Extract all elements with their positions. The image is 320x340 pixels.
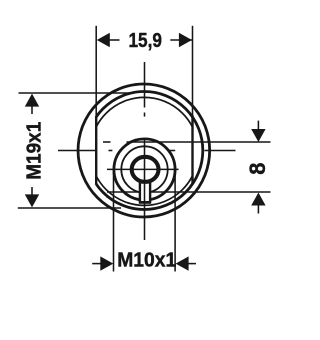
svg-text:8: 8 bbox=[245, 162, 270, 174]
M19 thread circle, clipped by left flat bbox=[86, 92, 203, 210]
dimension tail M10x1 left bbox=[92, 263, 101, 265]
arrow 8 top bbox=[251, 129, 265, 142]
extension line right of M10x1 bbox=[174, 171, 176, 272]
extension line left of 15,9 bbox=[95, 26, 97, 117]
extension line left of M10x1 bbox=[113, 172, 115, 272]
vertical centerline bbox=[144, 62, 146, 108]
tab right edge bbox=[149, 180, 151, 202]
dimension tail 8 bottom bbox=[257, 205, 259, 214]
arrow 8 bottom bbox=[251, 193, 265, 206]
svg-text:M19x1: M19x1 bbox=[23, 122, 46, 180]
M10 thread root circle bbox=[121, 146, 167, 192]
extension line bottom of M19x1 bbox=[18, 207, 121, 209]
svg-text:M10x1: M10x1 bbox=[117, 250, 176, 272]
left flat bbox=[95, 117, 97, 185]
arrow 15,9 left bbox=[97, 33, 110, 47]
arrow M10x1 right bbox=[176, 256, 189, 270]
dimension line M19x1 bottom segment bbox=[31, 187, 33, 196]
dimension tail M10x1 right bbox=[188, 263, 196, 265]
arrow M10x1 left bbox=[100, 256, 113, 270]
dimension line M19x1 top segment bbox=[31, 104, 33, 114]
dimension line 15,9 left segment bbox=[109, 39, 120, 41]
tab bottom edge bbox=[139, 201, 151, 204]
small bore circle bbox=[132, 157, 159, 182]
extension line right of 15,9 bbox=[192, 26, 194, 116]
horizontal centerline (M10 boss) bbox=[107, 168, 179, 170]
extension line top of 8 bbox=[103, 141, 111, 143]
right flat bbox=[191, 115, 193, 184]
tab (slot key) white fill bbox=[140, 177, 150, 202]
tab left edge bbox=[139, 180, 141, 202]
arrow M19x1 top bbox=[25, 94, 39, 107]
M10 boss circle bbox=[114, 139, 175, 200]
dimension line 15,9 right segment bbox=[170, 39, 192, 41]
dimension tail 8 top bbox=[257, 121, 259, 130]
extension line bottom of 8 bbox=[107, 191, 139, 193]
extension line top of M19x1 bbox=[19, 92, 135, 94]
arrow 15,9 right bbox=[179, 33, 192, 47]
svg-text:15,9: 15,9 bbox=[128, 29, 162, 52]
arrow M19x1 bottom bbox=[25, 194, 39, 207]
M19 thread root circle, clipped by both flats bbox=[90, 97, 198, 205]
horizontal centerline (main) bbox=[58, 150, 96, 152]
outer circle (flange OD) bbox=[78, 84, 210, 217]
